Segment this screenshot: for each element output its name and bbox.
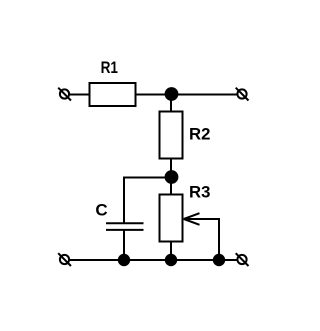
svg-text:C: C [95, 201, 107, 220]
wiper arrow of R3 [184, 213, 200, 225]
wire R3 to bottom rail [170, 242, 172, 260]
resistor R2 [160, 112, 183, 159]
capacitor C bottom plate [106, 229, 144, 231]
wire wiper to bottom rail [184, 219, 219, 260]
svg-text:R3: R3 [189, 182, 210, 201]
node J1 (R1/R2 junction) [165, 87, 179, 101]
terminal T2 (top right) [236, 88, 249, 101]
terminal T4 (bottom right) [236, 253, 249, 266]
wire R2 to J2 [170, 159, 172, 178]
wire capacitor to bottom rail [123, 230, 125, 260]
resistor R3 (potentiometer) [160, 195, 183, 242]
capacitor C top plate [106, 222, 144, 224]
wire J2 to R3 [170, 177, 172, 194]
wire J1 to R2 [170, 95, 172, 112]
node N2 (R3/bottom rail) [165, 254, 177, 266]
node J2 (R2/R3/C junction) [165, 170, 179, 184]
node N3 (wiper/bottom rail) [213, 254, 225, 266]
wire T1 to R1 [70, 94, 89, 96]
resistor R1 [90, 83, 136, 106]
node N1 (capacitor/bottom rail) [118, 254, 130, 266]
svg-text:R2: R2 [189, 124, 210, 143]
wire J2 branch to capacitor [124, 178, 171, 224]
wire R1 to T2 [137, 94, 237, 96]
svg-text:R1: R1 [101, 58, 118, 77]
bottom rail wire [70, 259, 237, 261]
terminal T3 (bottom left) [58, 253, 71, 266]
terminal T1 (top left) [58, 88, 71, 101]
